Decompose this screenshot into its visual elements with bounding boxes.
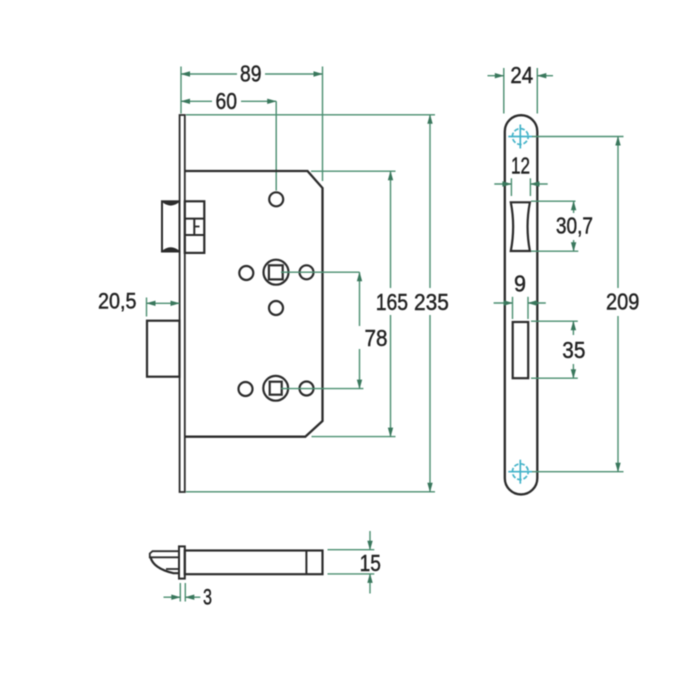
lower spindle square: [270, 382, 282, 395]
svg-text:235: 235: [414, 289, 449, 315]
bolt end divider: [305, 551, 307, 575]
dimension 209 line: [617, 137, 619, 289]
dimension 209 top extension: [532, 136, 624, 138]
bottom screw hole crosshair: [508, 460, 532, 484]
dimension 24 line: [488, 75, 504, 77]
svg-text:3: 3: [203, 585, 212, 610]
lower hole group: left circle: [239, 382, 253, 396]
deadbolt: [147, 321, 180, 377]
dimension 235 top extension: [186, 114, 435, 116]
dimension 12 line: [494, 183, 511, 185]
upper spindle circle: [264, 260, 289, 285]
lower right circle: [300, 382, 314, 396]
faceplate front view outline: [505, 115, 538, 494]
centerline to top hole: [275, 101, 277, 190]
dimension 78 line: [359, 272, 361, 326]
upper hole group: left circle: [239, 266, 253, 280]
dimension 3 extension lines: [179, 583, 181, 602]
latch head bevel: [151, 557, 180, 573]
dimension 30,7 bottom extension: [531, 250, 578, 252]
dimension 24 extension lines: [503, 68, 505, 114]
svg-text:15: 15: [360, 550, 381, 576]
upper spindle square: [269, 265, 283, 279]
dimension 165 line: [390, 171, 392, 288]
upper centerline: [281, 271, 360, 273]
svg-text:24: 24: [510, 62, 533, 88]
svg-text:30,7: 30,7: [556, 213, 593, 239]
svg-text:60: 60: [216, 88, 238, 114]
dimension 235 bottom extension: [186, 491, 435, 493]
dimension 30,7 line: [573, 201, 575, 213]
svg-text:12: 12: [511, 152, 530, 178]
svg-text:89: 89: [240, 61, 262, 87]
dimension 15 line: [369, 531, 371, 550]
faceplate cross-section: [179, 546, 185, 578]
svg-text:209: 209: [606, 288, 639, 314]
lower spindle circle: [263, 376, 288, 401]
deadbolt cutout: [513, 322, 529, 378]
latch head top bar: [150, 551, 179, 557]
dimension 89 line: [181, 73, 237, 75]
dimension 165 bottom extension: [312, 436, 396, 438]
dimension 30,7 top extension: [531, 200, 576, 202]
svg-text:20,5: 20,5: [98, 289, 137, 314]
top screw hole crosshair: [508, 125, 532, 149]
dimension 3 line: [164, 596, 181, 598]
dimension 60 line: [181, 100, 212, 102]
lock case outline: [185, 171, 323, 437]
dimension 20,5 extension line: [146, 298, 148, 317]
top hole: [269, 192, 283, 206]
dimension 89 left extension line: [180, 67, 182, 114]
svg-text:9: 9: [514, 271, 526, 297]
latch bolt inner block: [185, 201, 205, 253]
dimension 15 top extension: [328, 549, 375, 551]
dimension 9 line: [494, 302, 513, 304]
dimension 35 bottom extension: [531, 377, 578, 379]
dimension 35 top extension: [531, 320, 578, 322]
dimension 165 top extension: [311, 170, 396, 172]
upper right circle: [300, 265, 314, 279]
dimension 89 right extension line: [322, 67, 324, 182]
middle hole: [269, 301, 283, 315]
dimension 35 line: [572, 321, 574, 335]
dimension 15 bottom extension: [328, 573, 375, 575]
faceplate side view: [180, 115, 185, 492]
dimension 235 line: [429, 115, 431, 288]
dimension 12 extension lines: [510, 178, 512, 196]
dimension 20,5 line: [147, 302, 180, 304]
svg-text:78: 78: [365, 325, 388, 351]
latch cutout: [511, 202, 530, 251]
dimension 9 extension lines: [512, 297, 514, 319]
lower centerline: [281, 388, 363, 390]
svg-text:165: 165: [376, 289, 408, 315]
svg-text:35: 35: [562, 337, 585, 363]
latch bolt head (side view, protruding): [162, 201, 180, 251]
bolt body: [185, 551, 323, 575]
dimension 209 bottom extension: [532, 471, 624, 473]
